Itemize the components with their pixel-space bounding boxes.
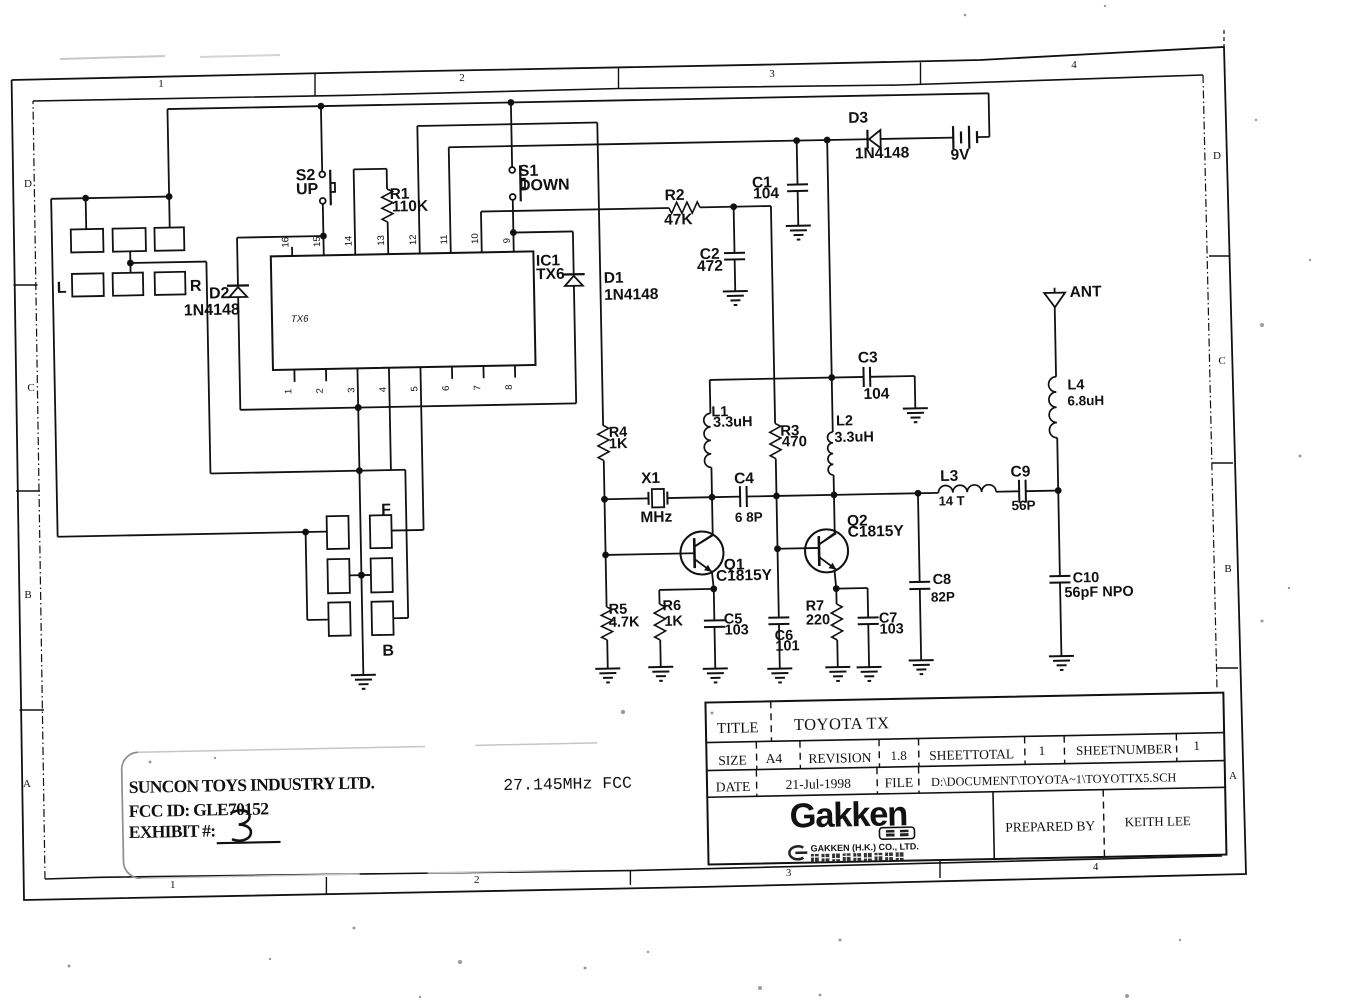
- svg-text:X1: X1: [641, 470, 661, 487]
- svg-text:6 8P: 6 8P: [735, 509, 763, 525]
- svg-text:F: F: [381, 502, 391, 519]
- svg-text:9V: 9V: [950, 146, 970, 163]
- svg-text:7: 7: [472, 385, 483, 391]
- svg-text:TX6: TX6: [291, 314, 309, 325]
- svg-text:1N4148: 1N4148: [855, 144, 910, 162]
- svg-text:C4: C4: [734, 470, 755, 487]
- svg-text:D1: D1: [604, 270, 625, 287]
- svg-text:R: R: [190, 278, 202, 295]
- svg-text:Gakken: Gakken: [789, 795, 907, 835]
- svg-text:103: 103: [879, 621, 904, 637]
- svg-text:110K: 110K: [392, 198, 429, 216]
- svg-text:C: C: [1218, 355, 1225, 367]
- svg-text:6: 6: [441, 386, 452, 392]
- svg-text:B: B: [1224, 563, 1231, 575]
- svg-text:21-Jul-1998: 21-Jul-1998: [785, 776, 851, 792]
- svg-text:D: D: [24, 178, 32, 190]
- svg-text:14: 14: [343, 236, 354, 247]
- svg-text:L2: L2: [836, 413, 853, 429]
- svg-text:UP: UP: [296, 181, 319, 198]
- svg-text:KEITH LEE: KEITH LEE: [1125, 813, 1191, 829]
- svg-text:12: 12: [408, 234, 419, 245]
- svg-text:103: 103: [724, 622, 749, 638]
- svg-text:2: 2: [315, 388, 326, 394]
- svg-text:11: 11: [439, 235, 450, 245]
- svg-text:27.145MHz FCC: 27.145MHz FCC: [503, 774, 632, 795]
- svg-text:1N4148: 1N4148: [604, 286, 659, 304]
- svg-text:MHz: MHz: [640, 509, 672, 527]
- svg-text:L3: L3: [940, 468, 959, 485]
- svg-text:FCC ID: GLE70152: FCC ID: GLE70152: [129, 798, 269, 821]
- svg-text:1N4148: 1N4148: [184, 301, 240, 319]
- svg-text:5: 5: [409, 386, 420, 392]
- svg-text:82P: 82P: [931, 589, 955, 604]
- svg-text:3.3uH: 3.3uH: [834, 429, 874, 446]
- svg-text:1: 1: [170, 879, 176, 891]
- svg-text:2: 2: [474, 874, 480, 886]
- svg-text:C8: C8: [932, 572, 951, 588]
- svg-text:ANT: ANT: [1069, 283, 1102, 301]
- svg-text:1.8: 1.8: [890, 748, 907, 763]
- svg-text:6.8uH: 6.8uH: [1067, 393, 1104, 409]
- svg-text:1: 1: [158, 78, 164, 90]
- svg-text:C1815Y: C1815Y: [848, 523, 905, 541]
- svg-text:C3: C3: [858, 349, 879, 366]
- svg-text:4.7K: 4.7K: [609, 614, 640, 631]
- svg-text:104: 104: [753, 185, 780, 203]
- svg-text:56P: 56P: [1011, 498, 1035, 513]
- svg-text:1: 1: [1038, 743, 1045, 758]
- svg-text:4: 4: [378, 387, 389, 393]
- svg-text:3: 3: [346, 387, 357, 393]
- svg-text:C1815Y: C1815Y: [716, 567, 773, 585]
- svg-text:D: D: [1213, 150, 1221, 162]
- svg-text:SIZE: SIZE: [718, 752, 747, 768]
- svg-text:470: 470: [782, 433, 807, 450]
- svg-text:B: B: [24, 589, 31, 601]
- svg-text:56pF NPO: 56pF NPO: [1064, 584, 1134, 601]
- svg-text:1K: 1K: [609, 436, 628, 452]
- svg-text:101: 101: [775, 638, 800, 654]
- svg-text:D3: D3: [848, 110, 869, 127]
- svg-text:220: 220: [806, 612, 831, 628]
- svg-text:FILE: FILE: [884, 775, 913, 791]
- svg-text:16: 16: [280, 237, 291, 248]
- svg-text:3.3uH: 3.3uH: [713, 414, 753, 431]
- svg-text:L: L: [57, 280, 67, 297]
- svg-text:L4: L4: [1067, 377, 1084, 393]
- svg-text:C: C: [27, 382, 34, 394]
- svg-text:13: 13: [376, 235, 387, 246]
- svg-text:D2: D2: [209, 285, 230, 302]
- svg-text:SHEETTOTAL: SHEETTOTAL: [929, 746, 1014, 763]
- svg-text:A: A: [1229, 770, 1237, 782]
- svg-text:14 T: 14 T: [938, 493, 964, 508]
- svg-text:DOWN: DOWN: [519, 177, 570, 195]
- svg-text:SHEETNUMBER: SHEETNUMBER: [1076, 741, 1173, 758]
- svg-text:R2: R2: [665, 187, 685, 204]
- svg-text:4: 4: [1093, 861, 1099, 873]
- svg-text:A: A: [23, 778, 31, 790]
- svg-text:A4: A4: [765, 751, 782, 766]
- svg-text:472: 472: [697, 258, 723, 275]
- svg-text:1: 1: [283, 389, 294, 395]
- svg-text:104: 104: [863, 385, 890, 403]
- svg-text:GAKKEN (H.K.) CO., LTD.: GAKKEN (H.K.) CO., LTD.: [810, 841, 919, 853]
- svg-text:PREPARED BY: PREPARED BY: [1005, 818, 1095, 835]
- svg-text:DATE: DATE: [716, 779, 751, 795]
- svg-text:REVISION: REVISION: [808, 750, 872, 766]
- svg-text:R6: R6: [662, 598, 681, 614]
- svg-text:8: 8: [504, 384, 515, 390]
- svg-text:TX6: TX6: [536, 266, 565, 284]
- svg-text:TITLE: TITLE: [717, 720, 759, 737]
- svg-text:3: 3: [786, 867, 792, 879]
- svg-text:C9: C9: [1010, 463, 1031, 480]
- svg-text:1K: 1K: [664, 613, 683, 629]
- svg-text:3: 3: [769, 68, 775, 80]
- svg-text:EXHIBIT #:: EXHIBIT #:: [129, 820, 216, 842]
- svg-text:9: 9: [502, 238, 513, 244]
- svg-text:10: 10: [470, 233, 481, 244]
- svg-text:4: 4: [1071, 59, 1077, 71]
- svg-text:2: 2: [459, 72, 465, 84]
- svg-text:TOYOTA TX: TOYOTA TX: [794, 713, 890, 734]
- svg-text:47K: 47K: [664, 211, 694, 229]
- svg-text:B: B: [382, 643, 394, 660]
- svg-text:1: 1: [1193, 738, 1200, 753]
